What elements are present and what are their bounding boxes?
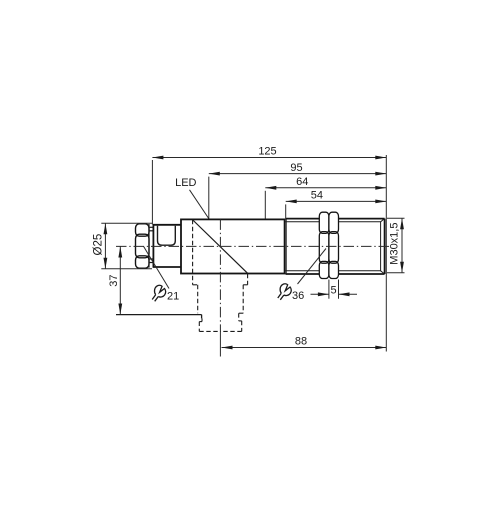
connector band bbox=[149, 224, 153, 268]
LED leader line bbox=[190, 190, 209, 219]
thread barrel M30 bbox=[286, 219, 385, 274]
svg-text:M30x1,5: M30x1,5 bbox=[389, 222, 401, 264]
svg-text:36: 36 bbox=[292, 290, 304, 302]
svg-text:LED: LED bbox=[175, 177, 196, 189]
svg-text:64: 64 bbox=[296, 176, 308, 188]
svg-text:88: 88 bbox=[295, 336, 307, 348]
hex nut A on thread bbox=[319, 212, 329, 278]
svg-text:125: 125 bbox=[258, 146, 276, 158]
dimension 54 bbox=[286, 201, 387, 218]
svg-text:Ø25: Ø25 bbox=[93, 234, 105, 256]
hex nut B on thread bbox=[329, 212, 339, 278]
main cylinder body bbox=[181, 219, 285, 273]
vertical centerline (T-slot axis) bbox=[219, 219, 221, 329]
svg-text:54: 54 bbox=[311, 190, 323, 202]
dimension D25 bbox=[101, 223, 152, 269]
window (U shape) on small cylinder bbox=[158, 226, 176, 246]
dimension 125 bbox=[152, 158, 386, 225]
svg-text:21: 21 bbox=[167, 291, 179, 303]
diagonal line on body bbox=[193, 220, 248, 273]
dimension 64 bbox=[265, 188, 386, 219]
svg-text:95: 95 bbox=[290, 162, 302, 174]
dimension 5 bbox=[311, 280, 358, 299]
wrench symbol 21 bbox=[152, 285, 165, 301]
wrench 36 leader line bbox=[298, 249, 327, 285]
dimension 37 bbox=[119, 247, 121, 315]
svg-text:37: 37 bbox=[108, 274, 120, 286]
dimension 95 bbox=[209, 174, 386, 219]
horizontal centerline bbox=[116, 245, 390, 247]
dimension 88 bbox=[222, 347, 387, 349]
hidden T-slot profile left bbox=[193, 220, 221, 332]
connector knurled nut bbox=[136, 224, 150, 268]
wrench symbol 36 bbox=[278, 284, 291, 300]
dimension M30x1,5 bbox=[387, 218, 405, 272]
small cylinder (clamp section) bbox=[153, 225, 181, 267]
wrench 21 leader line bbox=[144, 246, 170, 288]
svg-text:5: 5 bbox=[331, 284, 337, 296]
mounting surface line bbox=[116, 315, 202, 319]
right extension line (shared by 125/95/64/54 and 88) bbox=[385, 155, 387, 352]
hidden T-slot profile right bbox=[220, 274, 247, 332]
